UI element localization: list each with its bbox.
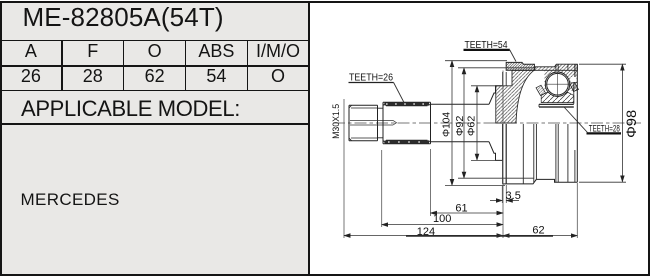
ball (top) [547, 73, 569, 95]
table row line under headers [0, 65, 309, 67]
header F [62, 41, 124, 62]
linear dim extension lines [382, 71, 578, 239]
APPLICABLE MODEL: [21, 96, 240, 122]
ball track white groove [545, 72, 569, 96]
dome over ball and mouth shoulder hatched [545, 70, 578, 90]
header O [124, 41, 186, 62]
divider between table and drawing [308, 1, 310, 275]
thread runout neck [378, 108, 384, 138]
threaded stub M30X1.5 [349, 105, 378, 140]
dim 62 [503, 235, 577, 237]
dimension Phi98 [579, 64, 626, 182]
mouth right face lines [575, 64, 577, 182]
inner race (top) [541, 91, 574, 103]
dim 124 [344, 235, 503, 237]
dimension Phi92 [458, 68, 536, 178]
bottom outline: ring bottom and steps [503, 160, 578, 184]
header I/M/O [247, 41, 308, 62]
value O [247, 66, 308, 87]
cage strip left (top) [536, 85, 546, 95]
table row line under APPLICABLE MODEL [0, 123, 309, 125]
dim 100 [382, 224, 503, 226]
dim 3.5 [490, 200, 502, 202]
dimension Phi104 [445, 61, 507, 186]
column divider 1 [61, 40, 63, 90]
table row line under title [0, 40, 309, 42]
cone and boot seat bottom [489, 142, 503, 161]
svg-text:61: 61 [455, 203, 467, 215]
column divider 4 [247, 40, 249, 90]
housing wall section (top half) [496, 70, 534, 123]
title text [23, 2, 224, 33]
frame: right border [648, 1, 650, 276]
groove between flange and ring [503, 72, 507, 86]
center drill hole [350, 120, 397, 125]
centerline [333, 122, 641, 124]
dimension Phi62 [471, 86, 496, 161]
spline bore TEETH=28 (top only) [539, 104, 574, 107]
mouth inner edge [574, 83, 578, 105]
groove verticals in top band [556, 64, 568, 70]
svg-text:Φ62: Φ62 [466, 115, 477, 136]
svg-text:Φ92: Φ92 [455, 115, 466, 136]
svg-text:62: 62 [532, 225, 544, 237]
table panel background [0, 1, 308, 275]
MERCEDES [21, 190, 120, 210]
svg-text:M30X1.5: M30X1.5 [331, 104, 342, 139]
table row line under values [0, 90, 309, 92]
svg-text:3.5: 3.5 [506, 190, 521, 202]
svg-text:100: 100 [433, 213, 451, 225]
dim 61 [431, 212, 504, 214]
value 28 [62, 66, 124, 87]
spline teeth band bottom [385, 140, 430, 143]
column divider 2 [123, 40, 125, 90]
svg-text:TEETH=26: TEETH=26 [349, 72, 393, 84]
value 26 [0, 66, 62, 87]
header A [0, 41, 62, 62]
frame: left border [0, 1, 2, 276]
cage strip right (top) [570, 83, 579, 92]
shaft between spline and flange [431, 104, 490, 141]
cone and boot seat top [489, 86, 503, 105]
frame: bottom border [0, 274, 650, 276]
housing outer band: dip section [534, 64, 577, 70]
header ABS [186, 41, 248, 62]
spline teeth band top [385, 102, 430, 105]
external view vertical lines [506, 124, 575, 184]
frame: top border [0, 1, 650, 3]
spline section TEETH=26 [383, 102, 431, 144]
thick scan artifact on 124/62 line [406, 235, 553, 237]
svg-text:Φ98: Φ98 [623, 110, 639, 138]
value 62 [124, 66, 186, 87]
column divider 3 [185, 40, 187, 90]
svg-text:Φ104: Φ104 [441, 112, 452, 137]
value 54 [186, 66, 248, 87]
white pocket in mouth rim [571, 77, 577, 83]
extension line at part left end for 124 dim [343, 99, 345, 238]
ABS ring TEETH=54 (section, top) [506, 62, 534, 70]
